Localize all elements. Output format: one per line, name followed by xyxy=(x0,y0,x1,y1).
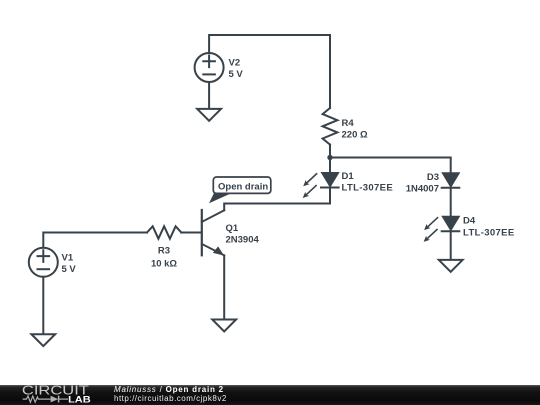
svg-text:1N4007: 1N4007 xyxy=(406,184,439,195)
svg-text:LAB: LAB xyxy=(68,394,91,405)
svg-text:LTL-307EE: LTL-307EE xyxy=(342,183,394,194)
svg-text:V1: V1 xyxy=(62,252,74,263)
svg-text:2N3904: 2N3904 xyxy=(226,235,260,246)
svg-text:R3: R3 xyxy=(158,245,170,256)
label V2 xyxy=(229,58,241,69)
LED D4 LTL-307EE xyxy=(424,217,460,242)
svg-text:V2: V2 xyxy=(229,58,241,69)
resistor R4 xyxy=(323,108,338,145)
svg-text:D3: D3 xyxy=(427,172,439,183)
label R3 value xyxy=(151,258,177,269)
LED D1 LTL-307EE xyxy=(303,173,339,198)
voltage source V1 xyxy=(29,248,58,277)
svg-text:R4: R4 xyxy=(342,118,355,129)
label R4 value xyxy=(342,130,368,141)
svg-text:LTL-307EE: LTL-307EE xyxy=(463,227,515,238)
svg-text:D1: D1 xyxy=(342,171,355,182)
annotation callout "Open drain" xyxy=(209,177,271,203)
label Q1 xyxy=(226,223,239,234)
svg-text:D4: D4 xyxy=(463,216,476,227)
label Q1 value xyxy=(226,235,260,246)
label V1 value xyxy=(62,264,77,275)
label V2 value xyxy=(229,69,244,80)
wire R3 to Q1 base xyxy=(181,232,201,234)
footer bar xyxy=(0,385,540,405)
svg-text:Open drain: Open drain xyxy=(218,181,268,192)
label D4 value xyxy=(463,227,515,238)
label V1 xyxy=(62,252,74,263)
label D3 xyxy=(427,172,439,183)
wire Q1 emitter to ground xyxy=(223,255,225,319)
attribution text xyxy=(114,386,227,403)
svg-text:5 V: 5 V xyxy=(62,264,77,275)
label R3 xyxy=(158,245,170,256)
svg-text:Q1: Q1 xyxy=(226,223,239,234)
svg-text:10 kΩ: 10 kΩ xyxy=(151,258,177,269)
wire D4 cathode to ground xyxy=(450,231,452,260)
voltage source V2 xyxy=(195,53,224,82)
svg-text:5 V: 5 V xyxy=(229,69,244,80)
label R4 xyxy=(342,118,355,129)
ground (below V1) xyxy=(31,334,55,346)
label D1 xyxy=(342,171,355,182)
ground (below D4) xyxy=(439,260,463,272)
wire D3 cathode to D4 anode xyxy=(450,188,452,217)
wire V1 to ground xyxy=(42,277,44,334)
CircuitLab logo xyxy=(18,385,118,405)
resistor R3 xyxy=(147,226,181,238)
wire junction to D3 anode xyxy=(330,158,451,174)
junction node xyxy=(327,155,332,160)
diode D3 1N4007 xyxy=(442,173,460,188)
label D4 xyxy=(463,216,476,227)
label D1 value xyxy=(342,183,394,194)
ground (below V2) xyxy=(197,109,221,121)
wire net V2+ to R4 top xyxy=(209,35,330,108)
transistor Q1 2N3904 xyxy=(202,210,224,256)
ground (below Q1) xyxy=(212,320,236,332)
wire R4 bottom to junction xyxy=(329,145,331,158)
wire D1 cathode to Q1 collector xyxy=(224,188,330,211)
wire V2 to ground xyxy=(208,82,210,109)
wire junction to D1 anode xyxy=(329,158,331,174)
svg-text:220 Ω: 220 Ω xyxy=(342,130,368,141)
label D3 value xyxy=(406,184,439,195)
wire V1+ to R3 xyxy=(43,233,147,249)
